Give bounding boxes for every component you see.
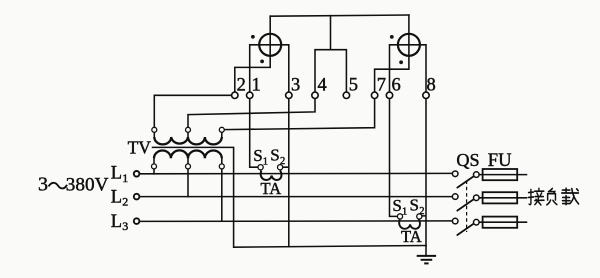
svg-text:FU: FU [488, 150, 512, 171]
svg-text:L: L [111, 212, 122, 232]
svg-text:QS: QS [456, 150, 479, 170]
svg-text:S: S [270, 145, 279, 164]
svg-text:S: S [392, 196, 401, 215]
svg-text:3: 3 [38, 174, 48, 196]
svg-text:4: 4 [318, 75, 327, 95]
svg-text:L: L [111, 187, 122, 207]
svg-text:S: S [253, 146, 262, 165]
svg-text:2: 2 [237, 75, 246, 95]
svg-text:5: 5 [349, 75, 358, 95]
svg-text:1: 1 [252, 75, 261, 95]
svg-text:TA: TA [401, 227, 422, 246]
svg-text:1: 1 [122, 171, 128, 185]
svg-text:2: 2 [419, 206, 424, 217]
svg-text:1: 1 [402, 206, 407, 217]
svg-text:6: 6 [392, 75, 401, 95]
svg-text:S: S [410, 195, 419, 214]
svg-text:2: 2 [280, 156, 285, 167]
svg-text:TV: TV [128, 137, 152, 157]
svg-text:7: 7 [377, 75, 386, 95]
svg-text:3: 3 [291, 75, 300, 95]
svg-text:8: 8 [427, 75, 436, 95]
svg-text:2: 2 [122, 195, 128, 209]
svg-text:380V: 380V [66, 175, 109, 196]
svg-text:L: L [111, 164, 122, 184]
svg-text:TA: TA [261, 179, 282, 198]
svg-text:1: 1 [263, 156, 268, 167]
svg-text:3: 3 [122, 219, 128, 233]
